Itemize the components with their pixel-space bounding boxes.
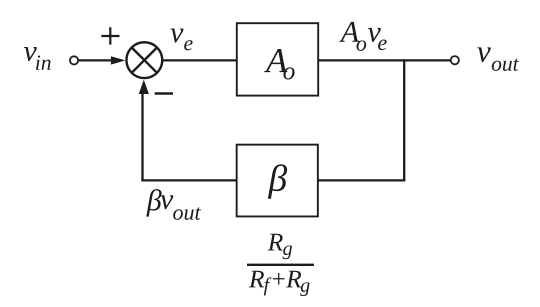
label v_out: [477, 47, 519, 71]
wire summing junction to block Ao: [162, 59, 237, 61]
node input terminal circle: [70, 56, 78, 64]
block Ao rectangle: [237, 23, 318, 95]
label beta v_out: [146, 189, 201, 220]
label v_e: [171, 29, 193, 51]
arrowhead into summing junction bottom: [139, 80, 149, 94]
minus sign at feedback input: [155, 92, 173, 94]
wire input to summing junction: [78, 59, 113, 61]
block beta rectangle: [237, 145, 318, 217]
label v_in: [24, 47, 51, 70]
wire branch from output node down: [403, 59, 405, 180]
plus sign at summing input: [101, 27, 119, 44]
label Ao ve on output wire: [339, 22, 386, 51]
fraction bar: [247, 264, 314, 266]
label Ao inside block: [264, 49, 295, 80]
wire block Ao to output terminal: [319, 59, 451, 61]
fraction numerator R_g: [268, 234, 292, 259]
wire branch to block beta: [319, 179, 406, 181]
fraction denominator R_f plus R_g: [249, 271, 310, 296]
arrowhead at summing junction input: [111, 56, 126, 64]
label beta inside block: [268, 164, 287, 198]
node output terminal circle: [451, 56, 459, 64]
wire feedback vertical up to summing junction: [141, 92, 143, 182]
wire block beta to feedback corner: [141, 179, 237, 181]
summing junction circle with X: [126, 42, 162, 78]
